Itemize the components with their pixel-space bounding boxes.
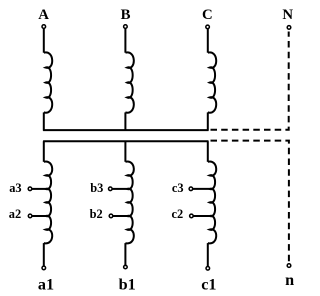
svg-text:a1: a1 [38,276,54,294]
svg-text:b2: b2 [90,207,103,221]
svg-text:B: B [121,7,131,23]
svg-text:a2: a2 [9,207,21,221]
svg-text:N: N [282,7,293,23]
svg-text:a3: a3 [9,181,21,195]
svg-text:b1: b1 [119,276,136,294]
svg-text:c3: c3 [172,181,184,195]
svg-text:C: C [202,7,213,23]
svg-text:c2: c2 [172,207,184,221]
svg-text:b3: b3 [90,181,103,195]
svg-text:c1: c1 [201,276,216,294]
svg-text:A: A [38,7,49,23]
svg-text:n: n [285,271,294,289]
